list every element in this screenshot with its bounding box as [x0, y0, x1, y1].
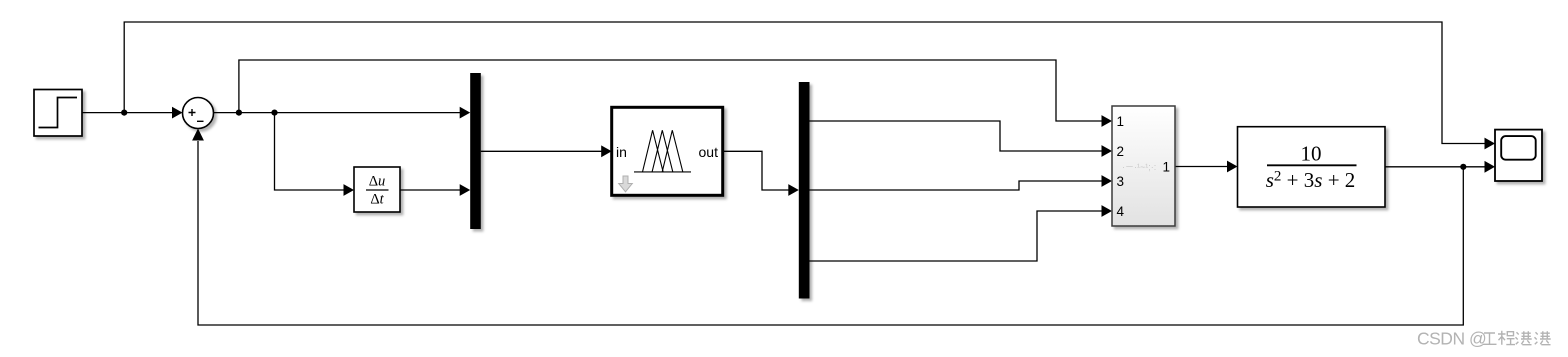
- svg-text:Δu: Δu: [369, 174, 386, 190]
- svg-text:4: 4: [1117, 204, 1125, 219]
- svg-text:Δt: Δt: [370, 192, 384, 208]
- svg-text:1: 1: [1117, 114, 1125, 129]
- svg-text:out: out: [699, 144, 719, 160]
- svg-text:·－·¹~¹;·:: ·－·¹~¹;·:: [1122, 162, 1156, 172]
- svg-text:CSDN @: CSDN @: [1417, 329, 1486, 349]
- svg-text:1: 1: [1162, 159, 1170, 174]
- svg-text:3: 3: [1117, 174, 1125, 189]
- svg-text:10: 10: [1301, 142, 1322, 166]
- svg-text:in: in: [616, 144, 627, 160]
- svg-text:2: 2: [1117, 144, 1125, 159]
